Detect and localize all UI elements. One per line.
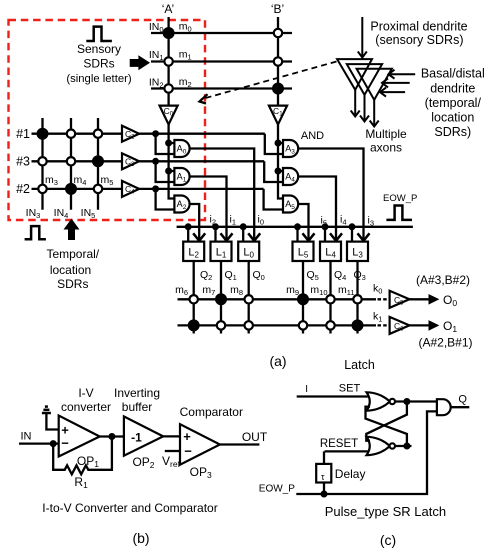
svg-text:τ: τ	[321, 472, 325, 482]
svg-text:IN: IN	[21, 431, 32, 443]
svg-text:(sensory SDRs): (sensory SDRs)	[375, 33, 463, 47]
svg-text:(temporal/: (temporal/	[425, 96, 482, 110]
svg-text:Delay: Delay	[335, 467, 366, 481]
svg-text:AND: AND	[301, 130, 324, 142]
svg-text:Pulse_type SR Latch: Pulse_type SR Latch	[325, 504, 446, 519]
svg-text:Basal/distal: Basal/distal	[421, 67, 485, 81]
svg-text:(c): (c)	[380, 532, 396, 548]
svg-text:SDRs: SDRs	[83, 57, 114, 71]
svg-text:I-to-V Converter and Comparato: I-to-V Converter and Comparator	[42, 501, 217, 515]
svg-text:OUT: OUT	[242, 430, 268, 444]
svg-text:location: location	[50, 263, 91, 277]
svg-text:axons: axons	[370, 140, 402, 154]
svg-text:(A#2,B#1): (A#2,B#1)	[418, 336, 472, 350]
svg-text:I: I	[305, 384, 308, 395]
svg-text:−: −	[61, 435, 69, 450]
svg-text:converter: converter	[61, 400, 111, 414]
svg-text:+: +	[183, 429, 191, 444]
svg-text:Proximal dendrite: Proximal dendrite	[370, 19, 467, 33]
svg-text:‘B’: ‘B’	[271, 2, 284, 16]
svg-text:SDRs): SDRs)	[434, 125, 471, 139]
svg-text:I-V: I-V	[78, 386, 93, 400]
svg-text:EOW_P: EOW_P	[383, 193, 417, 204]
svg-text:#3: #3	[16, 155, 30, 169]
svg-text:#1: #1	[16, 127, 30, 141]
svg-text:-1: -1	[131, 431, 142, 445]
svg-text:Inverting: Inverting	[114, 386, 160, 400]
svg-text:SDRs: SDRs	[57, 277, 88, 291]
svg-text:SET: SET	[339, 382, 361, 394]
svg-text:‘A’: ‘A’	[162, 2, 174, 16]
svg-text:RESET: RESET	[320, 438, 358, 450]
svg-text:Sensory: Sensory	[77, 42, 121, 56]
svg-text:buffer: buffer	[122, 400, 152, 414]
svg-text:Q: Q	[458, 394, 467, 406]
svg-text:#2: #2	[16, 182, 30, 196]
svg-text:Comparator: Comparator	[180, 405, 243, 419]
svg-text:(single letter): (single letter)	[66, 73, 132, 85]
svg-text:(A#3,B#2): (A#3,B#2)	[416, 273, 470, 287]
svg-text:location: location	[431, 110, 474, 124]
svg-text:(b): (b)	[132, 530, 149, 546]
svg-text:Latch: Latch	[344, 358, 375, 372]
svg-text:Temporal/: Temporal/	[46, 247, 99, 261]
svg-text:−: −	[184, 443, 192, 458]
svg-text:EOW_P: EOW_P	[259, 484, 295, 495]
svg-text:Multiple: Multiple	[365, 127, 407, 141]
svg-text:(a): (a)	[269, 353, 286, 369]
svg-text:dendrite: dendrite	[430, 81, 475, 95]
